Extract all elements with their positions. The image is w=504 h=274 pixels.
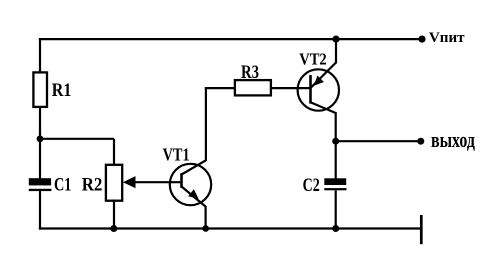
svg-text:Vпит: Vпит — [429, 30, 465, 46]
svg-text:C1: C1 — [54, 174, 71, 195]
transistor VT1 emitter line — [182, 187, 206, 207]
junction dot top rail — [332, 36, 339, 43]
wire R3 to VT2 base — [271, 87, 311, 89]
wire VT2 collector vertical — [335, 112, 337, 142]
transistor VT1 collector line — [182, 160, 206, 174]
wire node A to R2 top — [40, 138, 114, 140]
transistor VT2 circle — [298, 69, 339, 110]
transistor VT1 emitter arrowhead — [188, 189, 198, 199]
potentiometer R2 wiper arrowhead — [123, 176, 136, 188]
svg-text:R1: R1 — [52, 80, 72, 101]
wire R2 bottom lead — [113, 200, 115, 230]
junction dot output node — [332, 138, 339, 145]
transistor VT2 collector line — [311, 103, 336, 114]
node A junction dot — [37, 135, 44, 142]
junction dot VT1 emitter — [202, 225, 209, 232]
transistor VT2 emitter arrowhead — [314, 76, 324, 86]
svg-text:VT2: VT2 — [299, 50, 327, 69]
transistor VT2 emitter line — [311, 63, 336, 88]
capacitor C1 bottom plate — [29, 189, 52, 191]
potentiometer R2 — [106, 165, 122, 201]
transistor VT1 base bar — [180, 173, 183, 188]
transistor VT2 base bar — [309, 75, 312, 104]
wire VT1 collector vertical — [205, 87, 207, 161]
wire R2 wiper to VT1 base — [134, 181, 182, 183]
resistor R1 — [33, 72, 47, 107]
terminal dot output — [417, 138, 424, 145]
capacitor C2 top plate — [324, 178, 346, 185]
wire bottom rail — [39, 227, 422, 229]
junction dot C2 bottom — [332, 225, 339, 232]
capacitor C1 top plate — [29, 178, 51, 185]
wire R2 top lead — [113, 139, 115, 166]
junction dot R2 bottom — [110, 225, 117, 232]
ground bar — [420, 215, 423, 244]
svg-text:R2: R2 — [82, 174, 103, 195]
capacitor C2 bottom plate — [324, 188, 346, 190]
svg-text:выход: выход — [431, 127, 475, 152]
wire VT2 emitter to top rail — [335, 38, 337, 64]
svg-text:R3: R3 — [241, 62, 259, 83]
transistor VT1 circle — [170, 164, 211, 205]
terminal dot Vpit — [418, 36, 425, 43]
wire C2 top lead — [335, 140, 337, 179]
resistor R3 — [235, 80, 271, 95]
svg-text:C2: C2 — [303, 175, 320, 196]
wire C1 to bottom rail — [39, 191, 41, 230]
wire VT1 emitter vertical — [205, 206, 207, 230]
wire top rail — [39, 38, 422, 40]
svg-text:VT1: VT1 — [163, 145, 190, 165]
wire R1 to node A — [39, 106, 41, 179]
wire left vertical upper (rail to R1) — [39, 38, 41, 73]
wire C2 bottom lead — [335, 190, 337, 229]
wire VT1 collector to R3 — [205, 87, 235, 89]
wire output node to terminal — [336, 140, 421, 142]
